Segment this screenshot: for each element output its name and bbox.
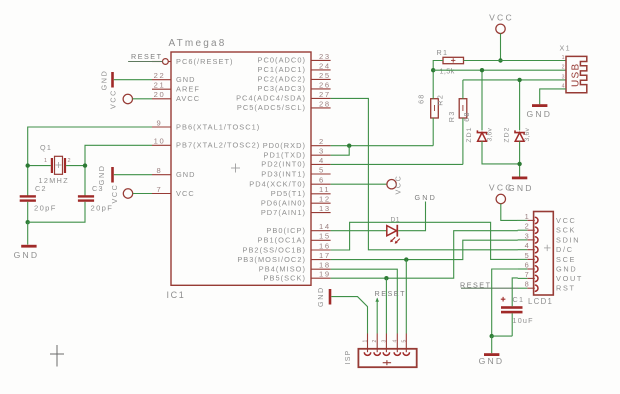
wire pin 7 to VCC xyxy=(133,193,152,195)
svg-text:1: 1 xyxy=(44,158,47,164)
svg-text:PD6(AIN0): PD6(AIN0) xyxy=(261,199,306,208)
svg-text:PB3(MOSI/OC2): PB3(MOSI/OC2) xyxy=(237,255,306,264)
wire D1 cathode to GND label xyxy=(398,202,425,231)
wire C1 bottom stub xyxy=(511,313,513,336)
IC1 name label ATmega8 xyxy=(169,38,227,49)
crystal Q1 name label xyxy=(40,143,52,152)
wire SCK to ISP pin3 xyxy=(385,278,387,329)
wire pin 6 to VCC xyxy=(331,183,387,185)
svg-text:USB: USB xyxy=(570,63,581,87)
connector X1 name label xyxy=(560,44,571,53)
svg-text:3: 3 xyxy=(381,340,387,343)
wire LCD pin6 GND net xyxy=(492,269,518,336)
svg-text:16: 16 xyxy=(319,241,331,250)
svg-text:ATmega8: ATmega8 xyxy=(169,38,227,49)
wire RXD net pin2 xyxy=(331,145,434,147)
node junction SCK ISP xyxy=(384,276,388,280)
svg-text:VCC: VCC xyxy=(176,189,195,198)
crystal Q1 pin numbers xyxy=(44,158,71,164)
svg-text:PB6(XTAL1/TOSC1): PB6(XTAL1/TOSC1) xyxy=(176,122,260,131)
capacitor C2 plates xyxy=(20,195,36,202)
svg-text:9: 9 xyxy=(157,118,163,127)
wire RESET to ISP pin2 xyxy=(375,298,379,330)
wire pin 8 to GND xyxy=(114,174,152,176)
svg-text:VCC: VCC xyxy=(556,216,577,225)
node junction R2 D- xyxy=(431,68,435,72)
power VCC at IC pin 7 xyxy=(110,184,133,204)
wire crystal pin2 to net xyxy=(66,165,85,167)
wire pin 20 to VCC xyxy=(133,98,153,100)
svg-text:PB4(MISO): PB4(MISO) xyxy=(259,265,306,274)
diode ZD2 value 3,6v xyxy=(524,127,531,141)
wire R1 left to D- junction xyxy=(433,61,443,71)
wire C1 bottom link xyxy=(492,335,513,337)
svg-text:1: 1 xyxy=(562,55,565,61)
svg-text:SDIN: SDIN xyxy=(556,235,580,244)
wire ZD1 bottom to zener join xyxy=(482,141,520,164)
node junction zener join xyxy=(517,162,521,166)
ground GND left of ISP xyxy=(316,286,331,307)
connector LCD1 pin numbers xyxy=(525,212,529,289)
wire XTAL1 pin 9 net xyxy=(28,127,152,196)
svg-text:3: 3 xyxy=(525,231,529,240)
svg-text:27: 27 xyxy=(319,90,331,99)
svg-text:23: 23 xyxy=(319,52,331,61)
connector ISP polarity cross xyxy=(383,360,391,365)
svg-text:ISP: ISP xyxy=(345,350,352,365)
svg-text:RST: RST xyxy=(556,284,576,293)
wire D- net to USB pin2 xyxy=(433,69,566,71)
svg-text:3,6v: 3,6v xyxy=(487,127,494,141)
svg-text:2: 2 xyxy=(372,340,378,343)
connector LCD1 body xyxy=(534,212,554,296)
capacitor C3 name xyxy=(92,184,104,193)
svg-text:GND: GND xyxy=(479,356,505,366)
wire MISO net pin18 to ISP pin4 xyxy=(331,269,398,329)
capacitor C3 plates xyxy=(78,195,94,202)
svg-text:68: 68 xyxy=(462,111,471,121)
wire R3 bottom to INT0 net xyxy=(462,118,464,164)
svg-text:GND: GND xyxy=(176,75,196,84)
connector X1 USB text xyxy=(570,63,581,87)
wire ZD2 top to D+ net xyxy=(519,80,521,130)
capacitor C1 value 10uF xyxy=(513,316,534,325)
wire pin14 to D1 anode xyxy=(331,230,387,232)
svg-text:14: 14 xyxy=(319,222,331,231)
svg-text:R2: R2 xyxy=(435,94,444,106)
svg-text:PC1(ADC1): PC1(ADC1) xyxy=(258,65,306,74)
connector ISP name xyxy=(345,350,352,365)
wire pin 22 to GND xyxy=(114,79,152,81)
capacitor C1 name xyxy=(513,295,525,304)
IC1 pin 1 PC6/RESET stub with inversion circle xyxy=(152,59,171,65)
crystal Q1 value 12MHZ xyxy=(39,176,70,185)
power VCC above LCD xyxy=(489,183,514,204)
capacitor C2 value 20pF xyxy=(34,204,57,213)
capacitor C2 name xyxy=(35,184,47,193)
svg-text:1,5k: 1,5k xyxy=(440,67,455,76)
svg-text:20pF: 20pF xyxy=(34,204,57,213)
svg-text:4: 4 xyxy=(525,241,529,250)
svg-text:LCD1: LCD1 xyxy=(528,297,553,306)
svg-text:3: 3 xyxy=(562,74,565,80)
svg-text:GND: GND xyxy=(415,193,438,202)
resistor R2 name xyxy=(435,94,444,106)
svg-text:25: 25 xyxy=(319,71,331,80)
ground GND below C2 xyxy=(14,222,40,260)
ground GND at IC pin 22 xyxy=(100,70,114,91)
wire C3 bottom to GND rail xyxy=(28,202,85,222)
svg-text:17: 17 xyxy=(319,251,331,260)
svg-text:VCC: VCC xyxy=(489,183,514,193)
svg-text:GND: GND xyxy=(97,164,106,185)
capacitor C3 value 20pF xyxy=(91,204,114,213)
IC1 origin cross xyxy=(231,164,240,173)
power VCC at pin 6 xyxy=(387,175,402,195)
svg-text:D/C: D/C xyxy=(556,245,574,254)
svg-text:24: 24 xyxy=(319,61,331,70)
svg-text:28: 28 xyxy=(319,99,331,108)
svg-text:4: 4 xyxy=(392,340,398,343)
resistor R3 body xyxy=(459,99,467,118)
wire VCC to R1 net xyxy=(500,34,502,61)
svg-text:GND: GND xyxy=(14,250,40,260)
svg-text:4: 4 xyxy=(319,156,325,165)
diode ZD1 zener xyxy=(477,130,486,141)
svg-text:6: 6 xyxy=(319,176,325,185)
node junction MOSI ISP xyxy=(404,257,408,261)
svg-text:10uF: 10uF xyxy=(513,316,534,325)
svg-text:ZD2: ZD2 xyxy=(504,126,511,142)
connector LCD1 pin contacts xyxy=(518,217,538,291)
node junction crystal left xyxy=(26,163,30,167)
wire PC4 net pin27 to LCD D/C xyxy=(331,98,518,249)
wire MOSI net pin17 to LCD SDIN xyxy=(331,240,518,259)
node junction VCC R1 xyxy=(498,58,502,62)
connector ISP pin contacts xyxy=(364,329,409,355)
wire R1 right to USB pin1 xyxy=(464,60,567,62)
svg-text:PC5(ADC5/SCL): PC5(ADC5/SCL) xyxy=(237,103,306,112)
svg-text:7: 7 xyxy=(157,185,163,194)
diode ZD2 zener xyxy=(515,130,524,141)
wire LCD pin7 to C1 top xyxy=(512,278,518,306)
svg-text:C1: C1 xyxy=(513,295,525,304)
sheet origin cross xyxy=(50,345,64,367)
svg-text:PB2(SS/OC1B): PB2(SS/OC1B) xyxy=(242,245,306,254)
svg-text:10: 10 xyxy=(154,137,166,146)
wire ZD1 top to D- net xyxy=(481,70,483,130)
svg-text:VCC: VCC xyxy=(393,175,402,195)
wire TXD tie to RXD xyxy=(331,146,350,156)
svg-text:PD7(AIN1): PD7(AIN1) xyxy=(261,208,306,217)
svg-text:21: 21 xyxy=(154,81,166,90)
resistor R3 name xyxy=(447,110,456,122)
connector X1 pin numbers xyxy=(562,55,565,89)
microcontroller IC1 ATmega8 body outline xyxy=(171,52,311,285)
svg-text:2: 2 xyxy=(68,158,71,164)
svg-text:RESET: RESET xyxy=(375,289,406,298)
svg-text:7: 7 xyxy=(525,270,529,279)
svg-text:R1: R1 xyxy=(437,48,449,57)
node RESET label at IC pin 1 xyxy=(131,52,162,61)
svg-text:11: 11 xyxy=(319,185,330,194)
svg-text:15: 15 xyxy=(319,232,331,241)
connector LCD1 name label xyxy=(528,297,553,306)
svg-text:20pF: 20pF xyxy=(91,204,114,213)
IC1 left pin numbers xyxy=(154,71,166,194)
node junction ZD2 D+ xyxy=(517,78,521,82)
svg-text:PB7(XTAL2/TOSC2): PB7(XTAL2/TOSC2) xyxy=(176,141,260,150)
resistor R1 value 1,5k xyxy=(440,67,455,76)
resistor R2 body xyxy=(431,99,439,118)
svg-text:8: 8 xyxy=(525,280,529,289)
resistor R1 body xyxy=(443,57,464,63)
connector ISP pin numbers xyxy=(363,340,408,343)
svg-text:22: 22 xyxy=(154,71,166,80)
svg-text:3: 3 xyxy=(319,147,325,156)
resistor R3 value 68 xyxy=(462,111,471,121)
diode D1 LED xyxy=(387,225,400,244)
svg-text:PB1(OC1A): PB1(OC1A) xyxy=(258,236,306,245)
wire D+ net to USB pin3 xyxy=(463,79,566,81)
node RESET label at ISP xyxy=(375,289,406,298)
diode ZD1 value 3,6v xyxy=(487,127,494,141)
wire R3 top to D+ net xyxy=(462,80,464,99)
svg-text:Q1: Q1 xyxy=(40,143,52,152)
svg-text:R3: R3 xyxy=(447,110,456,122)
svg-text:SCK: SCK xyxy=(556,226,576,235)
svg-text:GND: GND xyxy=(176,170,196,179)
svg-text:PB5(SCK): PB5(SCK) xyxy=(264,274,307,283)
svg-text:3,6v: 3,6v xyxy=(524,127,531,141)
svg-text:PD0(RXD): PD0(RXD) xyxy=(263,141,306,150)
node junction crystal right xyxy=(83,163,87,167)
svg-text:20: 20 xyxy=(154,90,166,99)
IC1 right pin stubs xyxy=(311,60,331,278)
svg-text:PC2(ADC2): PC2(ADC2) xyxy=(258,75,306,84)
svg-text:18: 18 xyxy=(319,261,331,270)
wire USB pin4 to GND xyxy=(540,89,566,104)
svg-text:PB0(ICP): PB0(ICP) xyxy=(266,226,306,235)
diode ZD2 name xyxy=(504,126,511,142)
svg-text:ZD1: ZD1 xyxy=(466,126,473,142)
ground GND at USB xyxy=(526,104,552,119)
node junction RXD TXD xyxy=(347,144,351,148)
wire GND to ISP pin1 xyxy=(331,297,367,329)
svg-text:19: 19 xyxy=(319,270,331,279)
ground GND at IC pin 8 xyxy=(97,164,114,185)
connector LCD1 pin names xyxy=(556,216,583,293)
svg-text:AVCC: AVCC xyxy=(176,94,200,103)
connector ISP body xyxy=(358,349,416,367)
svg-text:2: 2 xyxy=(525,222,529,231)
connector LCD1 origin cross xyxy=(544,245,551,251)
power VCC top center xyxy=(489,13,514,34)
IC1 left pin stubs pins 22 21 20 9 10 8 7 xyxy=(152,80,171,194)
ground GND below LCD xyxy=(479,336,505,366)
IC1 designator IC1 xyxy=(167,290,186,300)
capacitor C1 polarized plates xyxy=(501,297,523,313)
wire SCK net pin19 to LCD SCK xyxy=(331,231,518,279)
node GND label above D1 xyxy=(415,193,438,202)
svg-text:VOUT: VOUT xyxy=(556,274,583,283)
svg-text:8: 8 xyxy=(157,166,163,175)
node junction ZD1 D- xyxy=(480,68,484,72)
IC1 right pin labels xyxy=(236,56,306,283)
wire R2 bottom to RXD net xyxy=(432,118,434,146)
crystal origin cross xyxy=(56,162,62,168)
svg-text:PD2(INT0): PD2(INT0) xyxy=(261,160,306,169)
svg-text:2: 2 xyxy=(562,65,565,71)
wire RESET to LCD pin8 xyxy=(461,287,518,289)
svg-text:26: 26 xyxy=(319,80,331,89)
IC1 left pin labels xyxy=(176,57,260,198)
svg-text:6: 6 xyxy=(525,260,529,269)
svg-text:C2: C2 xyxy=(35,184,47,193)
svg-text:AREF: AREF xyxy=(176,85,200,94)
IC1 right pin numbers xyxy=(319,52,331,279)
crystal Q1 symbol xyxy=(51,156,66,174)
wire XTAL2 pin 10 net xyxy=(85,145,152,196)
svg-text:12: 12 xyxy=(319,195,331,204)
ground GND below zeners xyxy=(508,177,534,193)
power VCC at IC pin 20 xyxy=(109,89,133,109)
resistor R2 value 68 xyxy=(416,93,425,103)
wire R2 top to D- net xyxy=(432,70,434,99)
svg-text:VCC: VCC xyxy=(489,13,514,23)
svg-text:VCC: VCC xyxy=(109,89,118,109)
svg-text:PD3(INT1): PD3(INT1) xyxy=(261,169,306,178)
svg-text:2: 2 xyxy=(319,137,325,146)
svg-text:X1: X1 xyxy=(560,44,571,53)
svg-text:13: 13 xyxy=(319,204,331,213)
svg-text:GND: GND xyxy=(526,109,552,119)
node junction C1 GND xyxy=(490,334,494,338)
svg-text:GND: GND xyxy=(316,286,325,307)
svg-text:IC1: IC1 xyxy=(167,290,186,300)
diode ZD1 name xyxy=(466,126,473,142)
svg-text:PD5(T1): PD5(T1) xyxy=(271,189,306,198)
svg-text:PC4(ADC4/SDA): PC4(ADC4/SDA) xyxy=(236,94,306,103)
svg-text:PC0(ADC0): PC0(ADC0) xyxy=(258,56,306,65)
svg-text:PC6(/RESET): PC6(/RESET) xyxy=(176,57,234,66)
svg-text:1: 1 xyxy=(525,212,529,221)
svg-text:PC3(ADC3): PC3(ADC3) xyxy=(258,84,306,93)
svg-text:PD4(XCK/T0): PD4(XCK/T0) xyxy=(249,180,306,189)
wire INT0 net pin4 xyxy=(331,163,463,165)
wire MOSI to ISP pin5 xyxy=(405,260,407,329)
wire RESET net to pin 1 xyxy=(128,61,162,63)
svg-text:5: 5 xyxy=(319,165,325,174)
wire ZD2 bottom to GND xyxy=(519,141,521,176)
svg-text:VCC: VCC xyxy=(110,184,119,204)
svg-text:PD1(TXD): PD1(TXD) xyxy=(264,151,306,160)
svg-text:GND: GND xyxy=(556,265,577,274)
svg-text:68: 68 xyxy=(416,93,425,103)
svg-text:GND: GND xyxy=(100,70,109,91)
wire crystal pin1 to net xyxy=(28,165,51,167)
svg-text:1: 1 xyxy=(363,340,369,343)
svg-text:RESET: RESET xyxy=(131,52,162,61)
svg-text:5: 5 xyxy=(401,340,407,343)
svg-text:5: 5 xyxy=(525,251,529,260)
resistor R1 name xyxy=(437,48,449,57)
node RESET label at LCD RST xyxy=(460,281,491,290)
svg-text:SCE: SCE xyxy=(556,255,576,264)
connector X1 USB body xyxy=(566,56,587,92)
diode D1 name xyxy=(391,217,401,224)
node junction C2 bottom xyxy=(26,220,30,224)
wire SS net pin16 to LCD SCE xyxy=(331,222,518,259)
wire C2 bottom xyxy=(27,202,29,222)
wire VCC to LCD pin1 xyxy=(501,204,518,221)
